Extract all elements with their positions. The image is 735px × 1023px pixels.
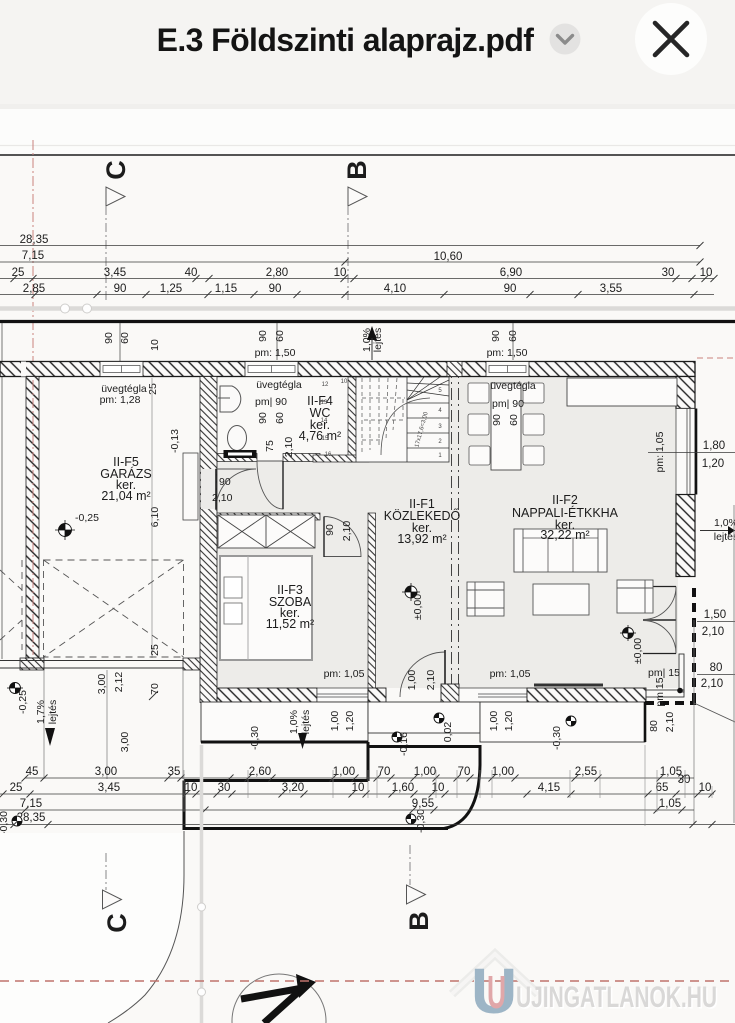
- svg-text:E.3 Földszinti alaprajz.pdf: E.3 Földszinti alaprajz.pdf: [157, 22, 535, 58]
- door gap garage-hall in party wall: [201, 469, 216, 509]
- north arrow: [241, 987, 304, 1023]
- section marker B bottom: triangle: [407, 885, 426, 904]
- svg-text:pm| 90: pm| 90: [255, 396, 287, 408]
- niche rect on party wall: [183, 453, 198, 520]
- bottom-left level symbol: [12, 816, 22, 826]
- driveway curve: [0, 833, 184, 1023]
- svg-text:7,15: 7,15: [22, 250, 44, 262]
- svg-text:10: 10: [334, 267, 347, 279]
- garage glass-block window: [100, 362, 143, 377]
- svg-text:1,7%: 1,7%: [35, 700, 47, 724]
- room label kozlekedo: [384, 497, 461, 546]
- section marker C bottom: pole: [105, 853, 107, 890]
- svg-text:1,00: 1,00: [414, 766, 436, 778]
- svg-text:3,55: 3,55: [600, 283, 622, 295]
- svg-text:60: 60: [508, 414, 520, 426]
- terrace right thick edge: [644, 702, 647, 742]
- svg-text:30: 30: [662, 267, 675, 279]
- svg-text:80: 80: [710, 662, 723, 674]
- tick at 70: [149, 691, 158, 700]
- svg-text:pm 15: pm 15: [654, 677, 666, 706]
- east wall lower: [676, 495, 695, 577]
- gray road centerline vertical: [200, 745, 204, 1023]
- parapet pm15 L-wall: [646, 654, 684, 697]
- door arc garage-hall: [216, 469, 256, 509]
- svg-text:10: 10: [341, 379, 348, 385]
- svg-text:60: 60: [507, 330, 519, 342]
- svg-text:1,80: 1,80: [703, 440, 725, 452]
- svg-text:1,25: 1,25: [160, 283, 182, 295]
- svg-text:32,22 m²: 32,22 m²: [540, 528, 589, 542]
- garage south wall pier left: [20, 658, 44, 670]
- svg-text:II-F2: II-F2: [552, 493, 578, 507]
- svg-text:90: 90: [257, 412, 269, 424]
- svg-text:pm: 1,50: pm: 1,50: [487, 347, 528, 359]
- driveway outline: [184, 781, 448, 829]
- svg-text:1,00: 1,00: [492, 766, 514, 778]
- svg-text:90: 90: [324, 524, 336, 536]
- dim ticks row4: [32, 291, 698, 298]
- east exterior wall upper: [676, 377, 695, 409]
- svg-text:13,92 m²: 13,92 m²: [397, 532, 446, 546]
- gray slider line: [0, 306, 735, 311]
- szoba east wall: [368, 513, 376, 688]
- svg-text:70: 70: [149, 683, 161, 695]
- svg-text:90: 90: [490, 330, 502, 342]
- svg-text:14: 14: [321, 418, 328, 424]
- svg-text:üvegtégla: üvegtégla: [490, 380, 536, 392]
- svg-text:60: 60: [119, 332, 131, 344]
- driveway level symbol: [406, 814, 416, 824]
- entrance walk thick outline: [368, 747, 480, 829]
- room label nappali: [512, 493, 619, 542]
- svg-text:90: 90: [114, 283, 127, 295]
- szoba north wall: [217, 513, 320, 520]
- stair winder fan lines: [407, 377, 449, 400]
- right extension verticals: [733, 505, 735, 823]
- svg-text:-0,13: -0,13: [169, 429, 181, 453]
- nappali south window: [459, 688, 527, 702]
- north circle: [232, 974, 326, 1023]
- section marker C bottom: triangle: [103, 890, 122, 909]
- svg-text:7,15: 7,15: [20, 798, 42, 810]
- wc door arc: [257, 461, 283, 509]
- svg-text:25: 25: [149, 644, 161, 656]
- svg-text:90: 90: [504, 283, 517, 295]
- svg-text:1,00: 1,00: [406, 670, 418, 691]
- svg-text:pm| 90: pm| 90: [492, 398, 524, 410]
- svg-text:pm: 1,28: pm: 1,28: [100, 394, 141, 406]
- svg-text:pm: 1,05: pm: 1,05: [490, 668, 531, 680]
- wc glass-block window: [245, 362, 298, 377]
- dining glass-block window: [486, 362, 529, 377]
- wc toilet: [228, 426, 247, 451]
- garage interior vertical dim line: [151, 378, 153, 658]
- svg-text:1,20: 1,20: [503, 711, 515, 732]
- section line C top: [105, 206, 107, 300]
- east window: [676, 409, 696, 495]
- svg-text:75: 75: [264, 440, 276, 452]
- nappali south wall with sliding door: [527, 688, 646, 702]
- section marker B top: flag triangle: [348, 187, 367, 206]
- bed: [220, 556, 312, 660]
- heavy dashed site boundary horizontal: [645, 701, 696, 705]
- wc sink: [220, 386, 241, 412]
- section line B top: [347, 206, 349, 300]
- svg-text:-0,16: -0,16: [398, 732, 410, 756]
- garage west wall: [26, 377, 39, 659]
- svg-text:2,10: 2,10: [664, 712, 676, 733]
- kozlekedo/nappali boundary dash-dot: [451, 366, 453, 700]
- svg-text:-0,25: -0,25: [17, 690, 29, 714]
- svg-text:1,05: 1,05: [659, 798, 681, 810]
- faint line: [0, 145, 735, 147]
- bottom dim row B: [10, 774, 712, 794]
- room label szoba: [266, 583, 314, 631]
- svg-text:4,76 m²: 4,76 m²: [299, 429, 341, 443]
- bottom dim ticks: [0, 775, 716, 829]
- svg-text:40: 40: [185, 267, 198, 279]
- heavy dashed site boundary vertical: [692, 588, 696, 703]
- svg-text:3,45: 3,45: [98, 782, 120, 794]
- svg-text:25: 25: [10, 782, 23, 794]
- terrace slab: [480, 702, 645, 742]
- red axis dashes over west wall: [32, 380, 34, 655]
- boundary diagonal leader: [694, 703, 735, 722]
- wardrobe with X: [218, 515, 315, 548]
- svg-text:3,00: 3,00: [119, 732, 131, 753]
- terrace double door arcs: [643, 587, 676, 620]
- svg-text:2,12: 2,12: [113, 672, 125, 693]
- slider knob 1: [61, 304, 70, 313]
- svg-text:3,45: 3,45: [104, 267, 126, 279]
- svg-text:C: C: [102, 913, 132, 933]
- svg-text:11,52 m²: 11,52 m²: [266, 617, 314, 631]
- svg-text:21,04 m²: 21,04 m²: [101, 489, 150, 503]
- svg-text:-0,30: -0,30: [551, 726, 563, 750]
- entry door gap + arc: [400, 652, 445, 697]
- svg-text:90: 90: [103, 332, 115, 344]
- svg-text:C: C: [101, 160, 131, 180]
- svg-text:1,0%: 1,0%: [714, 517, 735, 529]
- stair upper flight dashed: [362, 378, 405, 455]
- szoba door arc: [324, 517, 361, 557]
- bed fold line: [247, 556, 249, 660]
- svg-text:2,10: 2,10: [341, 521, 353, 542]
- sofa: [514, 529, 607, 572]
- svg-text:1,60: 1,60: [392, 782, 414, 794]
- kozlekedo level symbol: [402, 583, 420, 601]
- svg-text:10: 10: [185, 782, 198, 794]
- top exterior wall band: [0, 362, 695, 377]
- bottom dim row C: [20, 798, 681, 810]
- svg-text:B: B: [404, 911, 434, 931]
- svg-text:60: 60: [274, 412, 286, 424]
- pillows: [224, 577, 242, 598]
- svg-text:1,15: 1,15: [215, 283, 237, 295]
- svg-text:±0,00: ±0,00: [412, 594, 424, 620]
- svg-text:1,00: 1,00: [488, 711, 500, 732]
- coffee table: [533, 584, 589, 615]
- svg-text:15: 15: [322, 436, 329, 442]
- red dashed stub top right: [697, 357, 735, 359]
- stair south wall: [313, 455, 369, 462]
- stair right flight treads: [407, 377, 449, 462]
- szoba porch slab: [201, 702, 368, 742]
- svg-text:90: 90: [269, 283, 282, 295]
- svg-text:2,80: 2,80: [266, 267, 288, 279]
- garage apron level symbol: [7, 683, 23, 694]
- svg-text:0,02: 0,02: [442, 722, 454, 743]
- svg-text:45: 45: [26, 766, 39, 778]
- bottom dim extension lines: [184, 745, 712, 826]
- walkway left thick edge: [367, 742, 370, 781]
- svg-text:pm: 1,50: pm: 1,50: [255, 347, 296, 359]
- wc south wall: [217, 454, 257, 462]
- garage porch verticals: [44, 670, 183, 779]
- svg-text:70: 70: [458, 766, 471, 778]
- red dashed line bottom: [0, 980, 735, 982]
- svg-text:1,20: 1,20: [702, 458, 724, 470]
- svg-text:lejtés: lejtés: [47, 700, 59, 725]
- dining chairs left: [468, 383, 544, 465]
- svg-text:80: 80: [648, 720, 660, 732]
- stair walk line arc: [381, 398, 430, 455]
- entrance level symbols: [392, 732, 402, 742]
- kitchen counter: [567, 378, 677, 406]
- south wall szoba segment: [217, 688, 317, 702]
- svg-text:13: 13: [321, 400, 328, 406]
- top pier at boundary: [447, 362, 462, 377]
- svg-text:10,60: 10,60: [434, 251, 463, 263]
- header bar: [0, 0, 735, 104]
- wall level symbol: [184, 458, 196, 470]
- room floor fill: szoba+kozlekedo+nappali: [217, 461, 368, 688]
- svg-text:2,10: 2,10: [283, 437, 295, 458]
- svg-text:2,60: 2,60: [249, 766, 271, 778]
- right dim line at window: [648, 452, 735, 454]
- red axis vertical line: [32, 140, 34, 660]
- svg-text:-0,25: -0,25: [75, 512, 99, 524]
- svg-text:pm| 15: pm| 15: [648, 667, 680, 679]
- svg-text:2,10: 2,10: [701, 678, 723, 690]
- neighbor parking dashes: [0, 560, 22, 650]
- szoba/garage party wall: [200, 377, 217, 703]
- svg-text:10: 10: [699, 782, 712, 794]
- svg-text:90: 90: [219, 476, 231, 488]
- svg-text:65: 65: [656, 782, 669, 794]
- svg-text:pm: 1,05: pm: 1,05: [654, 431, 666, 472]
- svg-text:60: 60: [274, 330, 286, 342]
- garage south wall pier right: [183, 658, 200, 670]
- chevron button: [550, 24, 581, 55]
- svg-text:pm: 1,05: pm: 1,05: [324, 668, 365, 680]
- road centerline knob: [198, 903, 206, 911]
- szoba terrace window: [317, 688, 368, 702]
- section marker B bottom: pole: [409, 845, 411, 885]
- svg-text:1,00: 1,00: [333, 766, 355, 778]
- stairs outline: [356, 377, 449, 462]
- svg-text:2,10: 2,10: [425, 670, 437, 691]
- stair small numbers left: [321, 379, 348, 458]
- nappali door level symbol: [620, 625, 636, 641]
- armchair right: [617, 580, 653, 613]
- svg-text:2,55: 2,55: [575, 766, 597, 778]
- svg-text:±0,00: ±0,00: [632, 638, 644, 664]
- armchair left: [467, 582, 504, 616]
- sliding door track bar: [534, 684, 603, 687]
- svg-text:4,15: 4,15: [538, 782, 560, 794]
- svg-text:3,00: 3,00: [95, 766, 117, 778]
- svg-text:3,00: 3,00: [96, 674, 108, 695]
- svg-text:B: B: [342, 160, 372, 180]
- svg-text:1,0%: 1,0%: [288, 710, 300, 734]
- svg-text:3,20: 3,20: [282, 782, 304, 794]
- svg-text:12: 12: [322, 382, 329, 388]
- dining table: [491, 383, 521, 470]
- svg-text:-0,30: -0,30: [415, 809, 427, 833]
- garage door lines: [0, 660, 200, 662]
- wc/stair wall: [348, 377, 356, 462]
- dim end ticks rows 1-2: [342, 242, 704, 266]
- svg-text:10: 10: [149, 339, 161, 351]
- room label garage: [100, 455, 151, 503]
- svg-text:1,20: 1,20: [344, 711, 356, 732]
- svg-text:90: 90: [257, 330, 269, 342]
- svg-text:16: 16: [325, 452, 332, 458]
- entrance porch slab: [368, 702, 480, 733]
- svg-text:U: U: [487, 966, 506, 1018]
- parking space dashed X: [44, 560, 184, 657]
- svg-text:üvegtégla: üvegtégla: [256, 379, 302, 391]
- svg-text:70: 70: [378, 766, 391, 778]
- szoba porch bottom thick edge: [201, 741, 368, 744]
- bottom dim row A: [26, 766, 683, 778]
- wall joint seam: [21, 362, 26, 377]
- svg-text:25: 25: [12, 267, 25, 279]
- south wall segment between szoba window and entry: [368, 688, 386, 702]
- white strip below header: [0, 109, 735, 155]
- svg-text:UJINGATLANOK.HU: UJINGATLANOK.HU: [516, 981, 717, 1014]
- thick section-cut line: [0, 320, 735, 323]
- svg-text:1,00: 1,00: [329, 711, 341, 732]
- level symbol garage: [55, 512, 99, 540]
- entry pier: [441, 684, 459, 702]
- svg-text:2,10: 2,10: [212, 492, 233, 504]
- svg-text:lejtés: lejtés: [714, 531, 735, 543]
- room label wc: [299, 394, 341, 443]
- svg-text:1,50: 1,50: [704, 609, 726, 621]
- svg-text:2,85: 2,85: [23, 283, 45, 295]
- top frame line: [0, 154, 735, 156]
- svg-text:lejtés: lejtés: [300, 710, 312, 735]
- svg-text:90: 90: [491, 414, 503, 426]
- svg-text:30: 30: [218, 782, 231, 794]
- svg-text:6,90: 6,90: [500, 267, 522, 279]
- svg-text:-0,30: -0,30: [249, 726, 261, 750]
- slider knob 2: [83, 304, 92, 313]
- svg-text:2,10: 2,10: [702, 626, 724, 638]
- section marker C top: flag triangle: [106, 187, 125, 206]
- stair tread numbers: [438, 388, 442, 459]
- svg-text:-0,30: -0,30: [0, 811, 10, 835]
- dim ticks row3: [11, 275, 718, 282]
- watermark logo house roof: [452, 954, 538, 994]
- svg-text:4,10: 4,10: [384, 283, 406, 295]
- svg-text:25: 25: [147, 383, 159, 395]
- extension lines above top wall: [2, 323, 513, 659]
- svg-text:6,10: 6,10: [149, 507, 161, 528]
- svg-text:28,35: 28,35: [20, 234, 49, 246]
- close button: [635, 3, 707, 75]
